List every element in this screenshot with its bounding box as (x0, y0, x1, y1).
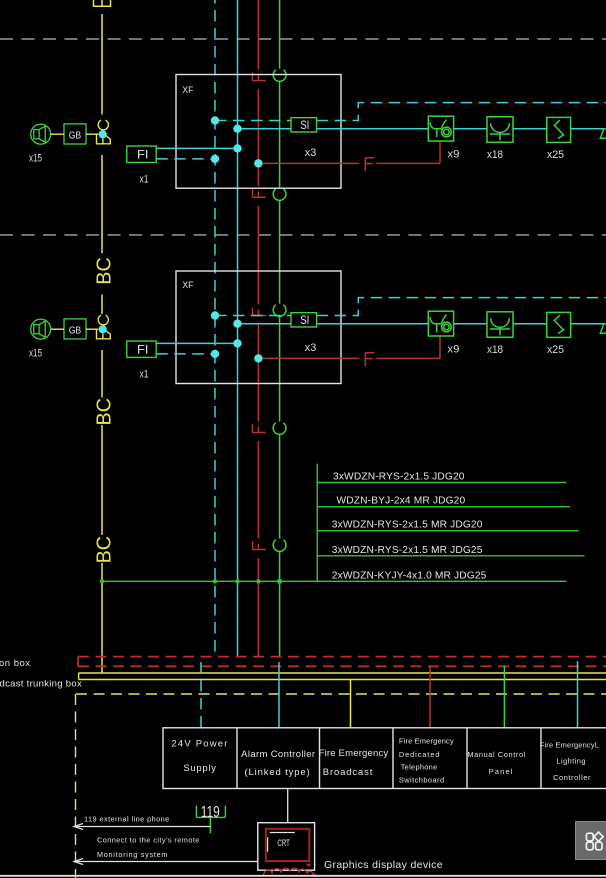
svg-text:Alarm Controller: Alarm Controller (241, 749, 315, 760)
svg-text:BC: BC (94, 398, 116, 426)
svg-text:Monitoring system: Monitoring system (97, 850, 168, 859)
svg-text:x18: x18 (487, 149, 503, 161)
svg-text:CRT: CRT (277, 838, 290, 848)
svg-text:BC: BC (94, 257, 116, 285)
svg-text:Connect to the city's remote: Connect to the city's remote (97, 836, 200, 845)
svg-text:XF: XF (182, 85, 193, 95)
svg-text:Broadcast: Broadcast (323, 767, 373, 778)
svg-text:(Linked type): (Linked type) (245, 767, 311, 778)
svg-text:x3: x3 (305, 147, 317, 159)
svg-text:119 external line phone: 119 external line phone (84, 815, 170, 824)
svg-text:Graphics display device: Graphics display device (324, 859, 443, 871)
svg-text:WDZN-BYJ-2x4 MR JDG20: WDZN-BYJ-2x4 MR JDG20 (337, 496, 466, 507)
svg-text:Fire EmergencyL: Fire EmergencyL (540, 741, 599, 750)
svg-text:Manual Control: Manual Control (467, 750, 526, 759)
svg-text:SI: SI (300, 120, 309, 132)
svg-text:3xWDZN-RYS-2x1.5 JDG20: 3xWDZN-RYS-2x1.5 JDG20 (333, 472, 465, 483)
svg-text:2xWDZN-KYJY-4x1.0 MR JDG25: 2xWDZN-KYJY-4x1.0 MR JDG25 (332, 570, 487, 581)
svg-text:BC: BC (94, 536, 116, 564)
svg-text:Fire Emergency: Fire Emergency (319, 748, 389, 759)
svg-text:Switchboard: Switchboard (399, 776, 445, 785)
svg-text:Controller: Controller (553, 773, 591, 782)
svg-text:FI: FI (137, 147, 149, 161)
svg-text:on box: on box (0, 658, 31, 669)
svg-text:x15: x15 (29, 153, 42, 165)
svg-text:x9: x9 (447, 149, 459, 161)
svg-text:x1: x1 (140, 174, 149, 186)
svg-text:Telephone: Telephone (401, 763, 438, 772)
svg-text:x25: x25 (547, 149, 564, 161)
svg-text:24V Power: 24V Power (171, 739, 228, 750)
svg-text:dcast trunking box: dcast trunking box (0, 679, 82, 690)
svg-text:Fire Emergency: Fire Emergency (399, 737, 454, 746)
svg-text:Dedicated: Dedicated (399, 750, 440, 759)
svg-text:GB: GB (69, 130, 82, 142)
svg-text:3xWDZN-RYS-2x1.5 MR JDG25: 3xWDZN-RYS-2x1.5 MR JDG25 (332, 545, 483, 556)
svg-text:119: 119 (201, 804, 220, 821)
svg-text:Supply: Supply (183, 763, 216, 774)
svg-text:Lighting: Lighting (556, 757, 586, 766)
svg-text:Panel: Panel (489, 767, 514, 776)
svg-text:3xWDZN-RYS-2x1.5 MR JDG20: 3xWDZN-RYS-2x1.5 MR JDG20 (332, 520, 483, 531)
